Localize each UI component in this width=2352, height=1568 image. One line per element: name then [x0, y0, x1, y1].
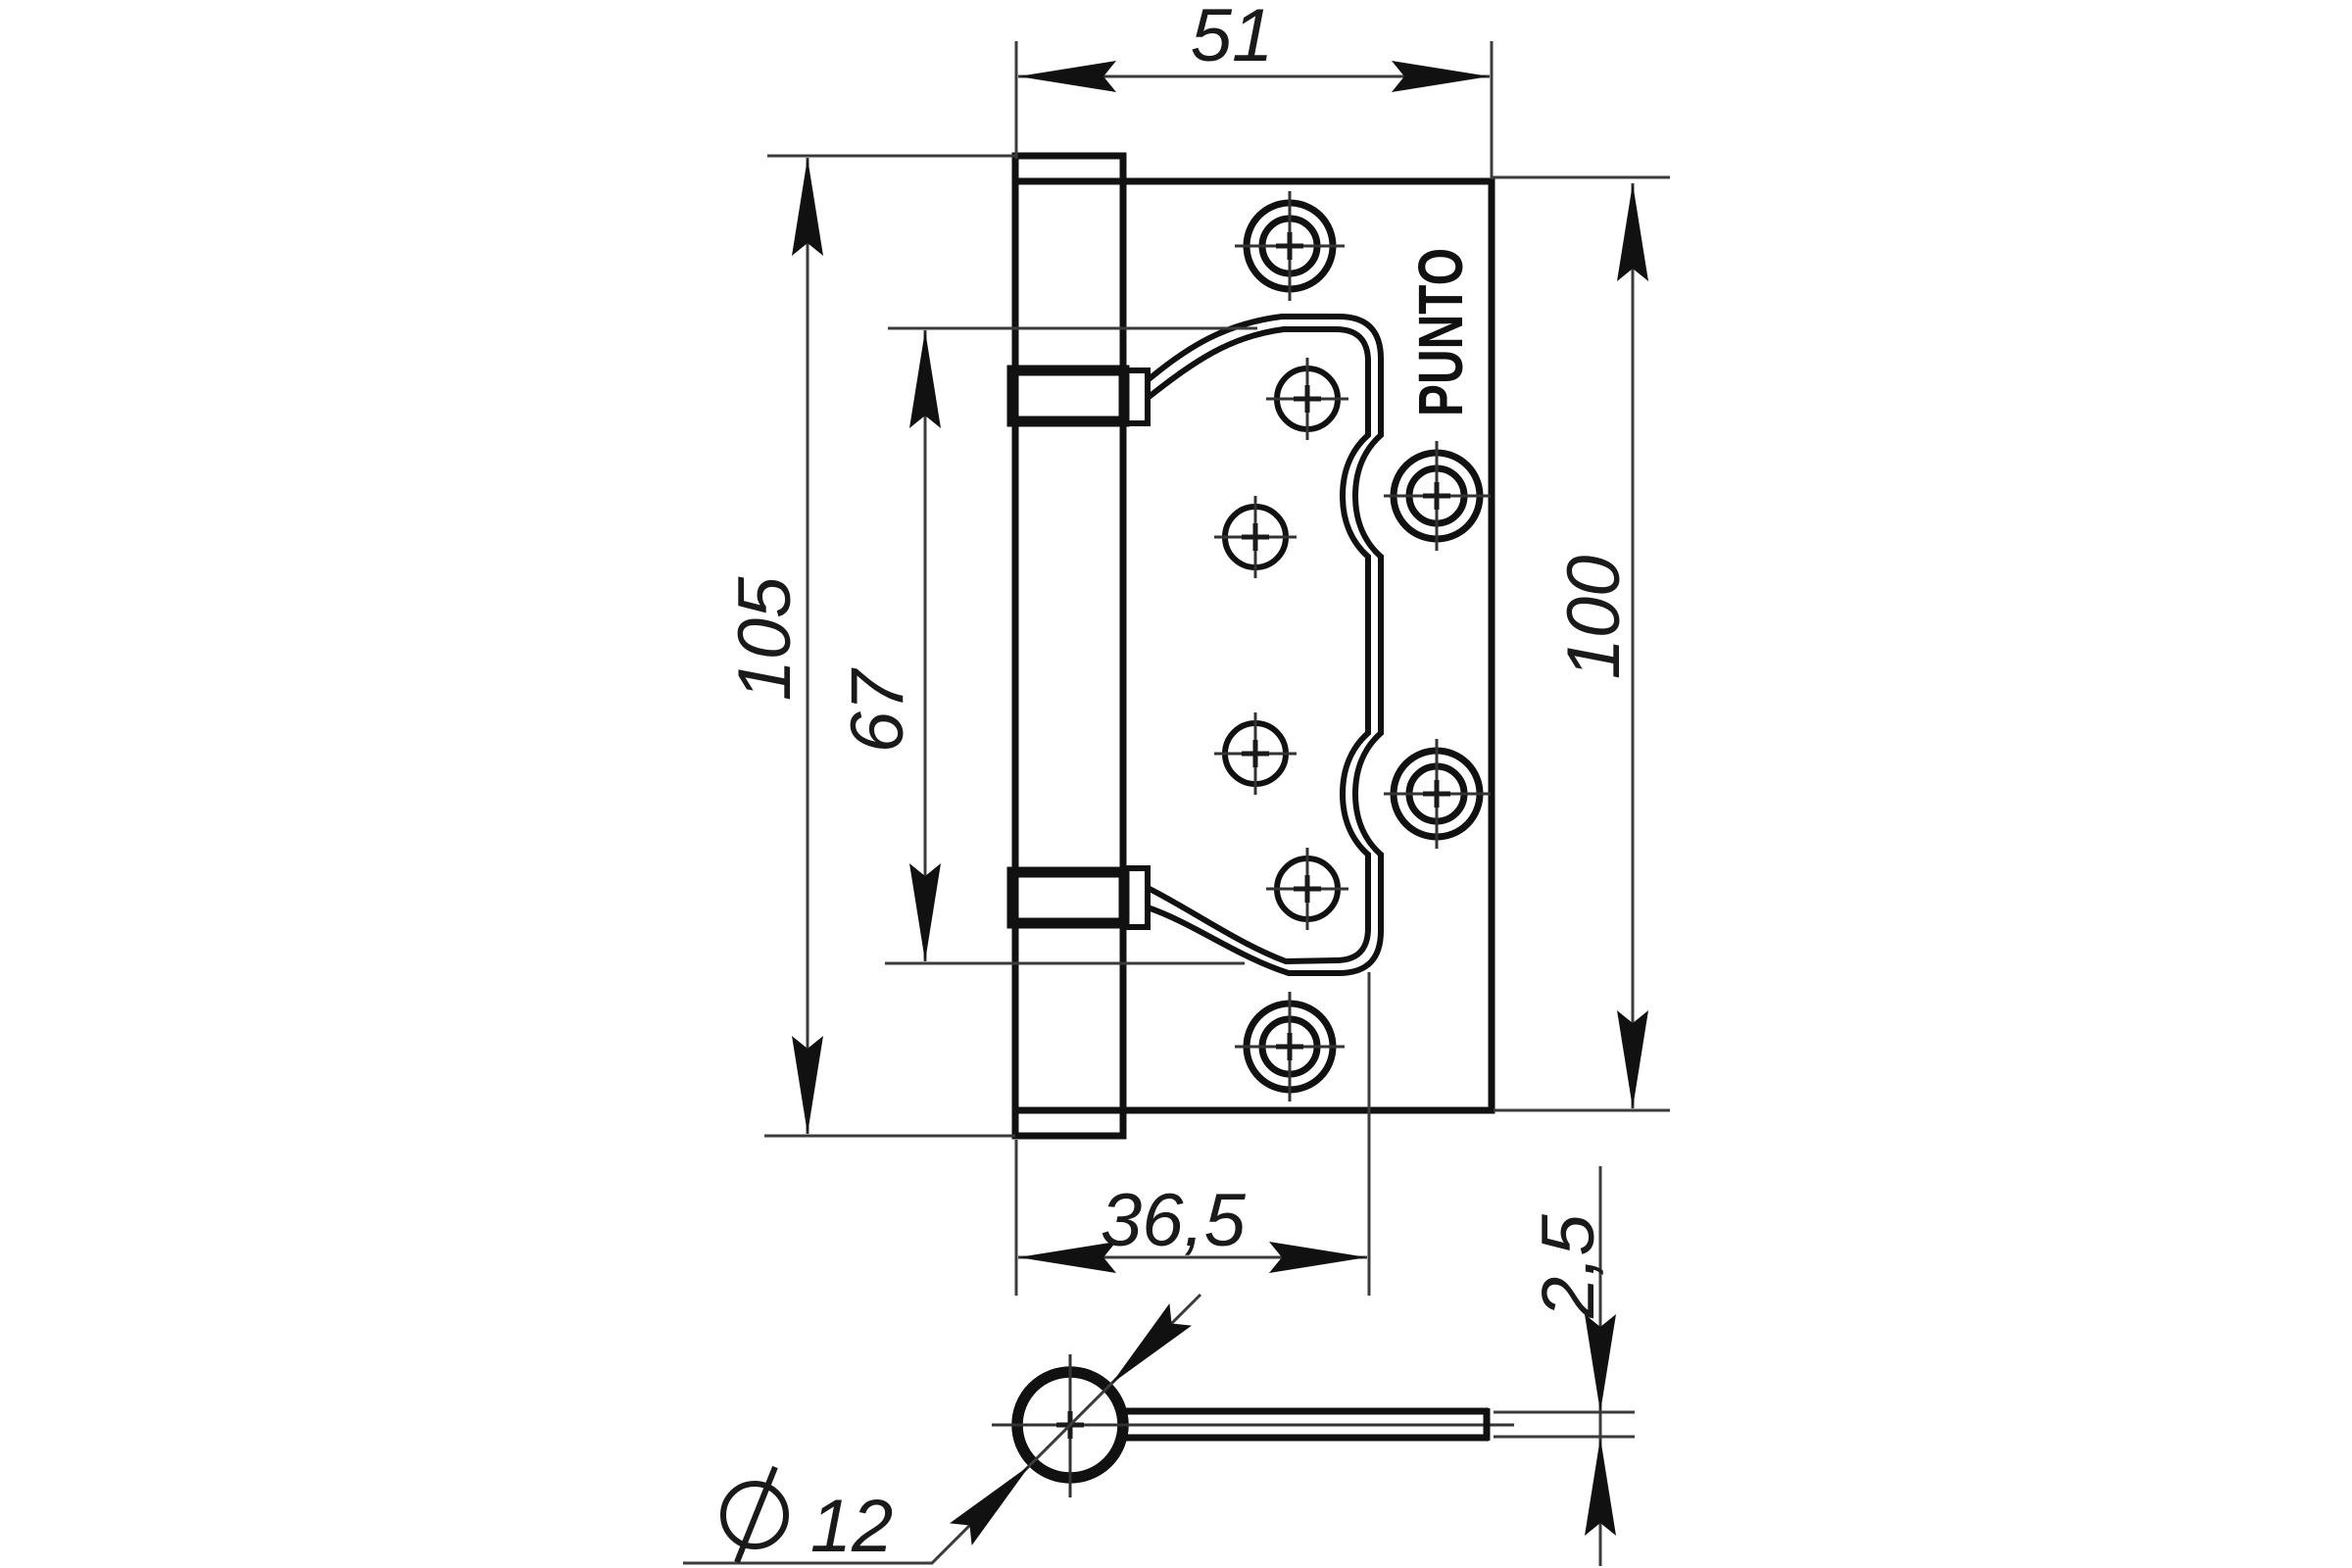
top bushing [1012, 370, 1124, 421]
pin circle [1017, 1372, 1123, 1478]
crosshair small 4 [1266, 848, 1348, 930]
dim 51 arrow left [1018, 61, 1116, 92]
bottom bushing tab [1124, 868, 1148, 927]
screw hole small 2 [1225, 507, 1286, 567]
side view leaf bottom [1126, 1435, 1489, 1442]
svg-text:105: 105 [723, 576, 807, 702]
screw hole big bottom [1247, 1004, 1333, 1090]
side view leaf end cap [1484, 1408, 1491, 1441]
pin crosshair [992, 1354, 1514, 1497]
dim 2,5 arrow lower [1585, 1438, 1616, 1536]
dim 51 extension left [1015, 41, 1018, 159]
barrel bottom cap [1015, 1110, 1123, 1136]
dim 36,5 arrow left [1018, 1242, 1116, 1273]
screw hole small 3 [1225, 723, 1286, 784]
side view leaf top [1126, 1408, 1489, 1415]
dim 2,5 extension bottom [1494, 1436, 1635, 1439]
dim 67 line [924, 330, 927, 961]
svg-text:2,5: 2,5 [1527, 1213, 1610, 1318]
screw hole big right upper [1394, 453, 1480, 539]
crosshair big bottom [1235, 992, 1345, 1102]
dim 67 arrow bottom [909, 863, 941, 961]
crosshair big top [1235, 191, 1345, 301]
crosshair big right upper [1384, 441, 1491, 551]
pin center mark [1056, 1411, 1084, 1439]
crosshair small 3 [1214, 712, 1297, 795]
diameter arrow lower [950, 1465, 1030, 1545]
dim 67 extension top [888, 327, 1257, 330]
dim 100 arrow top [1617, 183, 1648, 281]
dim 105 arrow top [792, 158, 823, 256]
svg-text:67: 67 [836, 667, 919, 753]
svg-text:51: 51 [1191, 0, 1274, 77]
hole center marks [1276, 232, 1303, 260]
door leaf outline outer [1148, 317, 1381, 973]
top bushing tab [1124, 370, 1148, 423]
dim 105 line [807, 158, 809, 1134]
bottom bushing [1012, 872, 1124, 923]
crosshair small 2 [1214, 496, 1297, 578]
screw hole big right lower [1394, 751, 1480, 837]
barrel right edge [1120, 156, 1127, 1136]
diameter symbol circle [723, 1484, 786, 1546]
dim 105 extension bottom [764, 1135, 1015, 1138]
barrel left edge [1012, 156, 1019, 1136]
frame leaf plate [1123, 181, 1492, 1110]
screw hole small 1 [1277, 368, 1338, 429]
dim 105 arrow bottom [792, 1036, 823, 1134]
dim 67 extension bottom [885, 962, 1245, 965]
door leaf outline inner [1148, 329, 1368, 961]
dim 2,5 extension top [1494, 1411, 1635, 1414]
crosshair small 1 [1266, 358, 1348, 440]
diameter arrow upper [1111, 1303, 1192, 1384]
dim 2,5 line [1599, 1166, 1602, 1566]
barrel top cap [1015, 156, 1123, 181]
plate bottom edge over cap [1012, 1107, 1123, 1114]
dim 105 extension top [767, 155, 1017, 158]
dim 67 arrow top [909, 330, 941, 428]
dim 36,5 extension left [1015, 1140, 1018, 1296]
screw hole small 4 [1277, 858, 1338, 919]
dim 36,5 line [1018, 1256, 1367, 1259]
crosshair big right lower [1384, 739, 1491, 849]
dim 36,5 extension right [1368, 972, 1371, 1296]
screw hole big top [1247, 203, 1333, 289]
dim 100 arrow bottom [1617, 1010, 1648, 1108]
dim 51 extension right [1491, 41, 1494, 179]
dim 100 extension top [1492, 176, 1670, 179]
dim 51 line [1018, 75, 1490, 78]
dim 100 line [1632, 183, 1635, 1108]
svg-text:36,5: 36,5 [1101, 1179, 1247, 1262]
diameter symbol slash [737, 1467, 775, 1562]
dim 100 extension bottom [1494, 1109, 1670, 1112]
dim 51 arrow right [1392, 61, 1490, 92]
svg-text:12: 12 [810, 1485, 894, 1568]
svg-text:100: 100 [1552, 556, 1636, 680]
svg-text:PUNTO: PUNTO [1405, 248, 1476, 416]
dim 36,5 arrow right [1269, 1242, 1367, 1273]
plate top edge over cap [1012, 178, 1123, 185]
dim 2,5 arrow upper [1585, 1314, 1616, 1412]
diameter leader line [683, 1295, 1200, 1563]
